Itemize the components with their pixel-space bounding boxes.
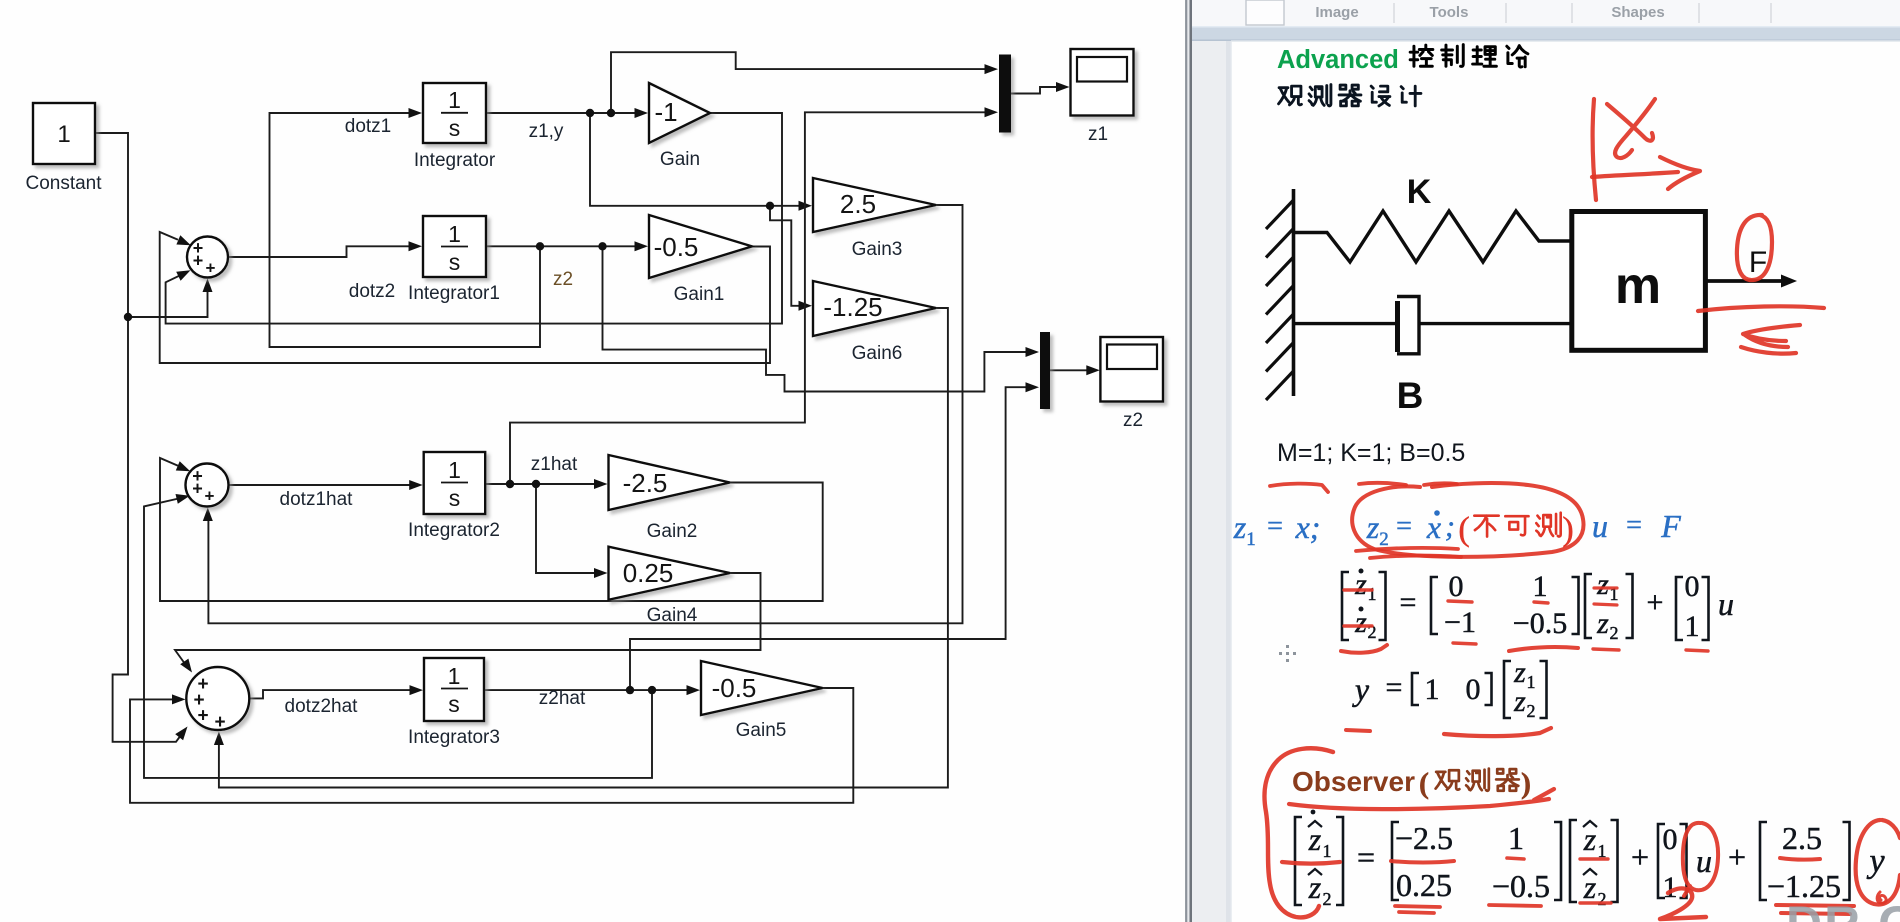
red 2 scribble [1660,888,1706,919]
svg-text:s: s [448,691,460,717]
svg-text:-2.5: -2.5 [623,468,668,498]
svg-text:Integrator1: Integrator1 [408,283,500,304]
whiteboard page [1231,41,1900,922]
hanzi guan [1436,770,1460,789]
integrator3 block [424,658,484,721]
svg-text:−2.5: −2.5 [1395,820,1453,856]
svg-text:Gain: Gain [660,149,700,170]
red underline params3 [1424,483,1457,485]
svg-text:0.25: 0.25 [1396,867,1452,903]
hanzi ke [1505,516,1528,535]
sum S3 [186,667,249,730]
red marks state eq [1344,588,1372,591]
svg-text:z: z [1513,685,1526,718]
spring K [1294,211,1572,262]
wire z2 net [486,245,637,247]
red small mark under y [1877,892,1886,903]
wire z1hat to Mux1 port2 [510,112,987,484]
svg-text:Image: Image [1315,4,1358,21]
integrator1 block [423,216,486,277]
mux1 bar [999,55,1011,133]
red axis vertical [1593,99,1596,200]
svg-text:Gain3: Gain3 [852,239,903,260]
svg-text:z1: z1 [1088,124,1108,145]
svg-text:Integrator3: Integrator3 [408,727,500,748]
svg-text:=: = [1386,671,1403,704]
wire z2hat net Integrator3 to Gain5 [484,689,689,691]
svg-text:0.25: 0.25 [623,558,674,588]
svg-text:u: u [1718,586,1734,622]
wire z2hat feedback to Sum2 [144,498,652,778]
svg-text:0: 0 [1663,823,1678,856]
svg-text:=: = [1626,510,1642,541]
svg-text:z2hat: z2hat [539,688,586,709]
wire z1hat net Integrator2 to Gain2 [485,483,596,485]
scope z2 screen [1107,345,1157,370]
svg-text:-1.25: -1.25 [823,292,882,322]
gain block (-1) [649,83,710,143]
red axis horizontal with arrow [1592,157,1700,189]
mass block m [1572,212,1706,351]
toolbar separators [1393,3,1395,23]
wire Mux1 to Scope z1 [1011,87,1058,94]
svg-text:2.5: 2.5 [840,189,876,219]
svg-text:Gain1: Gain1 [674,284,725,305]
svg-text:2: 2 [1610,623,1619,643]
wire z2 to dotz1 (Integrator input) [270,113,541,347]
gain2 block (-2.5) [609,455,731,510]
svg-text:1: 1 [1323,841,1332,861]
red lasso observer [1265,748,1334,917]
hanzi lun [1507,46,1528,67]
obs zhat vector [1570,820,1577,902]
obs B vector [1658,824,1665,898]
wire z1hat to Gain4 [536,484,596,573]
red circle around u [1683,823,1718,896]
svg-text:+: + [1631,839,1649,875]
svg-text:z: z [1596,607,1609,640]
red scribble arrows left [1741,325,1800,354]
svg-text:-1: -1 [654,97,677,127]
wire dotz2 Sum1 to Integrator1 [228,246,410,257]
svg-text:0: 0 [1685,570,1700,603]
svg-text:=: = [1400,586,1417,619]
svg-text:+: + [192,479,203,499]
wall hatching [1266,200,1294,229]
svg-text:s: s [449,485,461,511]
svg-text:0: 0 [1466,673,1481,706]
wire u net from Constant [95,133,184,742]
svg-text:x;: x; [1295,509,1321,545]
state eq z vector [1585,574,1592,638]
svg-text:z2: z2 [1123,410,1143,431]
scope z1 block [1071,49,1134,116]
red circle around F [1737,215,1772,280]
svg-text:+: + [206,259,216,278]
svg-text:+: + [1647,586,1664,619]
svg-text:=: = [1267,511,1283,542]
wire z1/y to Gain3 [590,113,801,206]
wire z2hat to Mux2 port2 [630,387,1028,690]
svg-text:z: z [1366,509,1380,545]
svg-text:(: ( [1458,511,1469,548]
red dbl underline z2 [1356,548,1461,558]
svg-text:1: 1 [57,121,70,148]
svg-text:Tools: Tools [1430,4,1469,21]
svg-text:dotz1: dotz1 [345,116,391,137]
gain6 block (-1.25) [813,281,936,336]
hanzi ce [1466,769,1489,791]
window divider [1185,0,1192,922]
svg-text:Gain5: Gain5 [736,720,787,741]
svg-text:Shapes: Shapes [1611,4,1664,21]
svg-text:z: z [1233,509,1247,545]
svg-text:+: + [214,712,225,733]
scope z2 block [1100,337,1163,402]
red long underline stroke [1698,306,1824,311]
wire z1 to Mux1 port1 [611,52,987,113]
svg-text:Constant: Constant [25,173,102,194]
svg-text:2: 2 [1598,889,1607,909]
svg-text:1: 1 [448,663,461,689]
wire z1 net Integrator to Gain [486,112,637,114]
svg-text:1: 1 [448,87,461,113]
scope z1 screen [1077,57,1127,82]
damper rod right [1419,322,1572,325]
junction z1hat branches [506,480,514,488]
wire Gain2 feedback to Sum2 [160,458,823,601]
svg-text:DR CA: DR CA [1786,896,1900,922]
wire y branch to Gain6 [770,206,801,306]
wire Gain5 feedback to Sum3 [130,688,853,803]
junction z2 branches [536,242,544,250]
svg-text:1: 1 [1368,584,1377,604]
hanzi kong [1410,45,1433,66]
red dbl underline -1.25 [1776,905,1854,914]
svg-text:B: B [1397,375,1424,416]
svg-text:Advanced: Advanced [1277,46,1399,74]
svg-text:=: = [1357,839,1375,875]
hanzi ji [1401,86,1421,106]
hanzi qi [1339,85,1361,106]
svg-text:2: 2 [1527,701,1536,721]
damper rod left [1294,322,1397,325]
red lasso around z2 equation [1352,483,1583,557]
red underline params2 [1359,483,1406,485]
hanzi qi [1496,769,1519,791]
wire Gain6 feedback to Sum3 bottom [219,308,948,788]
junction u-branch [124,313,132,321]
red marks observer eq [1282,862,1340,864]
svg-text:−1: −1 [1444,606,1476,639]
svg-text:dotz2hat: dotz2hat [285,696,359,717]
ribbon band [1192,26,1900,41]
force arrow F [1706,279,1784,283]
svg-text:y: y [1352,671,1370,707]
svg-text:): ) [1521,767,1531,800]
sum S2 [186,464,229,507]
svg-text:dotz2: dotz2 [349,281,395,302]
state eq vector zdot [1342,572,1349,640]
chrome gutter [1192,0,1900,922]
obs vector zhat-dot [1295,817,1302,905]
svg-text:+: + [197,706,208,727]
cursor cross dots [1279,645,1296,662]
hanzi ce [1536,513,1560,537]
hanzi she [1371,86,1390,106]
svg-text:s: s [449,115,461,141]
svg-text:2.5: 2.5 [1782,820,1822,856]
wall line [1292,189,1296,396]
gain1 block (-0.5) [649,215,752,278]
svg-text:z2: z2 [553,269,573,290]
wire Sum3 to Integrator3 [250,690,412,698]
svg-text:-0.5: -0.5 [654,232,699,262]
svg-text:z: z [1596,568,1609,601]
hanzi guan [1279,86,1302,105]
svg-text:1: 1 [1527,672,1536,692]
red circle around y [1856,820,1900,904]
wire Gain3 feedback to Sum2 bottom [208,205,962,623]
svg-text:+: + [205,487,215,506]
red sweep under observer [1289,789,1554,809]
toolbar strip [1192,0,1900,26]
wire Gain(-1) feedback to Sum1 [166,113,782,324]
state eq B vector [1676,577,1683,640]
svg-text:2: 2 [1379,529,1389,550]
svg-text:M=1; K=1; B=0.5: M=1; K=1; B=0.5 [1277,439,1465,467]
svg-text:1: 1 [1685,610,1700,643]
svg-text:;: ; [1445,510,1455,543]
svg-text:u: u [1696,843,1712,879]
damper cup [1397,297,1419,354]
svg-text:(: ( [1419,767,1429,800]
hanzi li [1473,47,1497,66]
svg-text:u: u [1592,508,1608,544]
svg-text:z1hat: z1hat [531,454,578,475]
toolbar active tab [1246,0,1284,25]
junction z2hat branches [626,686,634,694]
svg-text:Observer: Observer [1292,766,1415,797]
svg-text:m: m [1615,257,1661,315]
wire Gain4 feedback to Sum3 [175,573,761,668]
red underline params1 [1270,484,1328,492]
hanzi ce [1309,85,1331,106]
svg-text:+: + [193,251,204,271]
svg-text:Gain2: Gain2 [647,521,698,542]
constant block [33,103,95,164]
wire z2 to Mux2 port1 [603,246,1029,391]
svg-text:−0.5: −0.5 [1492,868,1550,904]
page edge [1226,41,1231,922]
hanzi bu [1474,516,1498,537]
svg-text:=: = [1396,511,1412,542]
wire Mux2 to Scope z2 [1050,369,1088,371]
gain4 block (0.25) [609,547,731,600]
svg-text:z1,y: z1,y [529,121,564,142]
obs A-LC matrix [1392,822,1399,900]
svg-text:K: K [1407,173,1432,211]
svg-text:Gain6: Gain6 [852,343,903,364]
junction z1 branches [586,109,594,117]
mux2 bar [1040,332,1050,409]
wire Gain1 feedback to Sum1 [160,232,770,363]
svg-text:-0.5: -0.5 [712,673,757,703]
gain3 block (2.5) [813,178,936,232]
svg-text:dotz1hat: dotz1hat [280,489,354,510]
red marks output eq [1346,730,1370,731]
svg-text:F: F [1660,508,1681,544]
svg-text:1: 1 [1533,570,1548,603]
integrator2 block [424,452,486,514]
svg-text:1: 1 [1425,673,1440,706]
svg-text:1: 1 [448,221,461,247]
svg-text:y: y [1866,843,1885,880]
svg-text:Integrator2: Integrator2 [408,520,500,541]
state eq A matrix [1431,577,1438,634]
red underline 2.5 [1780,858,1820,860]
svg-text:Gain4: Gain4 [647,605,698,626]
red x displacement squiggle [1607,99,1655,158]
svg-text:1: 1 [448,457,461,483]
integrator block [423,83,486,143]
svg-text:−0.5: −0.5 [1513,607,1567,640]
svg-text:): ) [1562,511,1573,548]
svg-text:0: 0 [1449,570,1464,603]
sum S1 [187,237,228,278]
svg-text:2: 2 [1323,889,1332,909]
svg-text:1: 1 [1246,529,1256,550]
damper piston [1395,301,1400,352]
hanzi zhi [1442,45,1464,67]
wire dotz1hat Sum2 to Integrator2 [229,484,412,486]
obs L vector [1760,822,1767,900]
svg-text:1: 1 [1508,820,1524,856]
svg-text:Integrator: Integrator [414,150,496,171]
svg-text:s: s [449,249,461,275]
svg-text:+: + [1728,839,1746,875]
wire u branch to Sum1 bottom [128,282,208,317]
gain5 block (-0.5) [701,661,823,715]
